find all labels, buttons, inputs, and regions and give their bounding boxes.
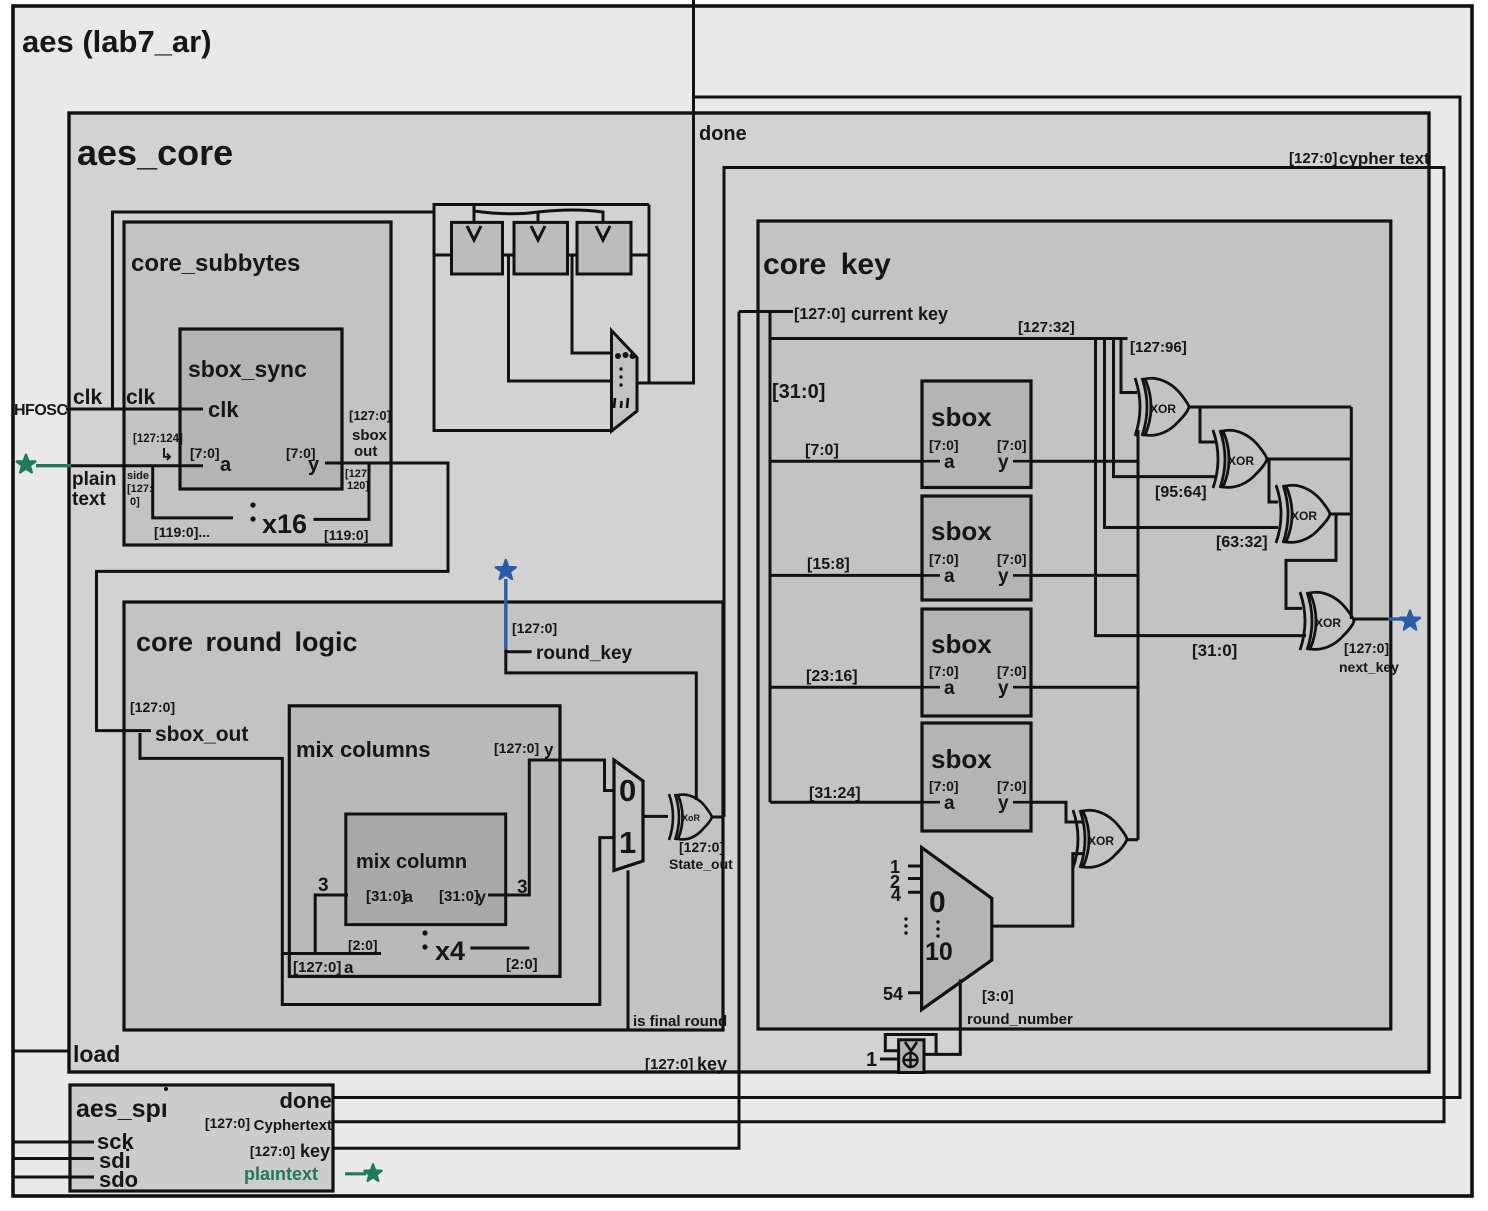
svg-text:core round logic: core round logic: [136, 627, 358, 657]
wire +1 feedback loop: [885, 1035, 936, 1055]
mux marks ooo: [615, 353, 621, 359]
wire a S2 [15:8]: [770, 574, 922, 577]
svg-text:[127:0]: [127:0]: [205, 1115, 250, 1131]
svg-text:text: text: [72, 489, 106, 510]
svg-text:a: a: [944, 678, 955, 699]
svg-text:[127:0]: [127:0]: [645, 1056, 693, 1073]
module box sbox_sync: [180, 329, 342, 489]
wire plaintext into sbox_sync a: [71, 464, 203, 467]
wire a S4 [31:24]: [770, 801, 922, 804]
wire 1 tick: [880, 1058, 899, 1061]
svg-text:[127:: [127:: [345, 468, 371, 480]
wire y S2 to g-bus: [1031, 574, 1138, 577]
svg-text:Cyphertext: Cyphertext: [254, 1117, 332, 1134]
wire y S1 to g-bus: [1031, 460, 1138, 463]
module box mix column: [346, 814, 506, 925]
mux final round select: [614, 760, 643, 870]
module box aes_core: [69, 113, 1429, 1072]
wire K4 out: [1354, 618, 1388, 621]
mux register select: [612, 331, 638, 432]
svg-text:120]: 120]: [347, 480, 369, 492]
wire R2/R3 junction down to mux: [572, 255, 612, 353]
wire :x4 stub: [470, 947, 529, 950]
svg-text:done: done: [699, 123, 747, 145]
wire g-bus vertical: [1137, 430, 1140, 840]
mux rcon input ticks: [908, 866, 922, 993]
svg-text:mix column: mix column: [356, 851, 467, 873]
svg-text:HFOSC: HFOSC: [14, 402, 68, 419]
svg-text:sbox: sbox: [931, 402, 992, 432]
svg-text:[7:0]: [7:0]: [929, 551, 959, 567]
xor gate K1: [1135, 378, 1189, 436]
wire slice drop v4 [127:96]: [1121, 339, 1137, 393]
svg-text:[31:0]: [31:0]: [366, 888, 406, 905]
svg-text:cypher text: cypher text: [1339, 149, 1430, 168]
svg-text:x4: x4: [435, 936, 465, 966]
svg-text:core_subbytes: core_subbytes: [131, 250, 300, 277]
wire mix column y out: [488, 760, 614, 895]
wire sbox_out from sbox_sync y: [97, 463, 449, 731]
module box core_subbytes: [124, 222, 391, 545]
svg-text:sbox_out: sbox_out: [155, 723, 248, 746]
sbox S4: [922, 723, 1031, 831]
svg-text:[127:0]: [127:0]: [250, 1143, 295, 1159]
next_key star (blue): [1388, 611, 1420, 630]
mux rcon: [922, 848, 992, 1010]
wire slice drop v2 [63:32]: [1105, 339, 1279, 528]
svg-text:[7:0]: [7:0]: [805, 442, 839, 459]
pin ticks sboxes: [922, 461, 1031, 802]
svg-text:a: a: [944, 566, 955, 587]
svg-text:[31:0]: [31:0]: [439, 888, 479, 905]
svg-text:aes (lab7_ar): aes (lab7_ar): [22, 24, 212, 59]
svg-text:[15:8]: [15:8]: [807, 556, 850, 573]
xor gate K5: [1073, 810, 1127, 868]
svg-text:[127:0]: [127:0]: [679, 839, 724, 855]
svg-text:[127:32]: [127:32]: [1018, 319, 1075, 336]
svg-text:a: a: [220, 454, 232, 476]
wire K2 out to bus: [1267, 458, 1351, 461]
svg-text:a: a: [944, 452, 955, 473]
svg-text:[7:0]: [7:0]: [997, 551, 1027, 567]
svg-text:[119:0]...: [119:0]...: [154, 524, 210, 540]
arrowhead into R3: [596, 226, 610, 240]
svg-text:[7:0]: [7:0]: [190, 445, 220, 461]
wire sdi: [13, 1157, 94, 1160]
svg-text:a: a: [944, 793, 955, 814]
xor-plus symbol: [904, 1053, 918, 1067]
svg-text:[7:0]: [7:0]: [929, 663, 959, 679]
svg-text:sbox: sbox: [931, 629, 992, 659]
svg-text:out: out: [354, 443, 377, 460]
arrowhead clock mark: [905, 1042, 917, 1051]
svg-text:3: 3: [318, 875, 329, 896]
svg-text:1: 1: [619, 825, 636, 860]
wire sck: [13, 1141, 94, 1144]
wire mux output to done riser: [637, 382, 694, 385]
arrowhead into R2: [531, 226, 545, 240]
svg-text:y: y: [998, 678, 1009, 699]
svg-text:[127:0]: [127:0]: [494, 740, 539, 756]
svg-text:0: 0: [929, 886, 946, 919]
svg-text:XoR: XoR: [682, 813, 701, 823]
svg-text:3: 3: [517, 877, 528, 898]
svg-text:[127:0]: [127:0]: [794, 306, 846, 323]
label :x16: [250, 502, 255, 507]
wire K5 out to g-bus: [1127, 838, 1138, 841]
wire load: [13, 1050, 69, 1053]
wire a S3 [23:16]: [770, 686, 922, 689]
svg-text:done: done: [279, 1088, 332, 1113]
svg-text:a: a: [344, 958, 354, 977]
wire [127:32] horizontal: [770, 337, 1128, 340]
svg-text:y: y: [544, 740, 554, 759]
svg-text:y: y: [998, 793, 1009, 814]
svg-text:y: y: [477, 889, 486, 906]
svg-text:sbox: sbox: [931, 516, 992, 546]
label :x4: [422, 930, 427, 935]
svg-text:clk: clk: [208, 397, 239, 422]
svg-text:[23:16]: [23:16]: [806, 668, 858, 685]
svg-text:XOR: XOR: [1228, 454, 1254, 468]
wire x16 left stub [119:0]: [153, 466, 233, 518]
module box aes_spi: [70, 1085, 333, 1191]
wire key loop: [333, 312, 739, 1149]
wire sbox_out continue: [140, 733, 614, 1005]
register R2: [514, 222, 568, 274]
wire is final round select: [627, 870, 630, 1030]
svg-text:XOR: XOR: [1315, 616, 1341, 630]
svg-text:clk: clk: [126, 386, 156, 409]
arrowhead into R1: [467, 226, 481, 240]
mux marks lil: [614, 398, 628, 408]
svg-text:[31:0]: [31:0]: [1192, 641, 1237, 660]
svg-text:[127:0]: [127:0]: [512, 620, 557, 636]
svg-text:XOR: XOR: [1088, 834, 1114, 848]
wire round_number select: [924, 979, 960, 1054]
svg-text:is final round: is final round: [633, 1013, 727, 1030]
svg-text:[119:0]: [119:0]: [324, 527, 368, 543]
plaintext star out (green): [345, 1164, 382, 1181]
svg-text:plain: plain: [72, 469, 116, 490]
wire reg connectors: [434, 254, 649, 257]
svg-text:current key: current key: [851, 304, 948, 324]
svg-text:y: y: [998, 566, 1009, 587]
svg-text:sbox: sbox: [352, 427, 388, 444]
svg-text:mix columns: mix columns: [296, 737, 430, 762]
wire next_key bus vertical: [1350, 407, 1353, 619]
module box mix columns: [289, 706, 560, 977]
svg-text:[7:0]: [7:0]: [929, 778, 959, 794]
wire slice drop v1 [31:0]: [1096, 339, 1307, 636]
wire x16 right stub: [314, 463, 370, 519]
mux marks dots: [619, 367, 622, 370]
svg-text:XOR: XOR: [1291, 509, 1317, 523]
svg-text:[31:24]: [31:24]: [809, 785, 861, 802]
svg-text:a: a: [404, 889, 413, 906]
wire register-block frame right: [648, 205, 651, 384]
wire branch to mix column a: [282, 952, 381, 955]
svg-text:[127:0]: [127:0]: [1289, 150, 1337, 167]
module box core round logic: [124, 602, 723, 1030]
module box core key: [758, 221, 1391, 1029]
svg-text:[127:124]: [127:124]: [133, 433, 183, 445]
wire register-block frame left/bottom: [434, 205, 649, 431]
xor gate state_out: [669, 794, 712, 840]
sbox S2: [922, 496, 1031, 600]
wire K1 out to bus: [1189, 406, 1351, 409]
svg-text:[7:0]: [7:0]: [997, 437, 1027, 453]
wire K1 out jog to K2: [1200, 407, 1215, 442]
svg-text:State_out: State_out: [669, 856, 733, 872]
svg-text:0: 0: [619, 773, 636, 808]
register R1: [452, 222, 503, 274]
wire slice drop v3 [95:64]: [1114, 339, 1216, 477]
svg-text:[127:0]: [127:0]: [1344, 640, 1389, 656]
svg-text:54: 54: [883, 984, 903, 1004]
wire sdo: [13, 1176, 94, 1179]
svg-text:XOR: XOR: [1150, 402, 1176, 416]
svg-text:[7:0]: [7:0]: [997, 663, 1027, 679]
svg-text:key: key: [300, 1141, 330, 1161]
svg-text:next_key: next_key: [1339, 659, 1399, 675]
svg-text:side: side: [127, 470, 149, 482]
svg-text:y: y: [998, 452, 1009, 473]
xor gate K4: [1300, 592, 1354, 650]
svg-text:load: load: [73, 1041, 120, 1067]
svg-text:sbox: sbox: [931, 744, 992, 774]
wire rcon mux out to K5: [992, 854, 1084, 927]
wire R1/R2 junction down to mux: [509, 255, 612, 381]
svg-text:[2:0]: [2:0]: [506, 956, 538, 973]
plaintext input star (green): [17, 455, 71, 473]
svg-text:[127:96]: [127:96]: [1130, 339, 1187, 356]
wire K3 out jog to K4: [1286, 514, 1336, 608]
register round counter +1: [899, 1040, 924, 1073]
wire K2 out jog to K3: [1269, 459, 1278, 502]
sbox S3: [922, 609, 1031, 716]
svg-text:core key: core key: [763, 248, 891, 281]
svg-text:key: key: [697, 1054, 727, 1074]
svg-text:4: 4: [891, 885, 901, 905]
svg-text:[7:0]: [7:0]: [929, 437, 959, 453]
svg-text:[7:0]: [7:0]: [997, 778, 1027, 794]
wire state_out to cyphertext riser: [712, 816, 724, 819]
svg-text:0]: 0]: [130, 496, 140, 508]
svg-text:1: 1: [866, 1049, 877, 1071]
svg-text:[95:64]: [95:64]: [1155, 484, 1207, 501]
svg-text:↳: ↳: [160, 447, 173, 464]
node clk riser to register block: [113, 212, 435, 409]
wire mux out to xor: [643, 815, 668, 818]
svg-text:y: y: [308, 454, 320, 476]
svg-text:[127:: [127:: [127, 483, 153, 495]
svg-text:plaıntext: plaıntext: [244, 1164, 318, 1184]
wire K3 out to bus: [1330, 513, 1351, 516]
wire register feed line with arrows: [474, 205, 603, 222]
svg-text:[31:0]: [31:0]: [772, 381, 825, 403]
svg-text:[2:0]: [2:0]: [348, 937, 378, 953]
wire done loop: [692, 0, 695, 385]
svg-text:10: 10: [925, 938, 953, 966]
svg-text:[3:0]: [3:0]: [982, 988, 1014, 1005]
sbox S1: [922, 381, 1031, 488]
svg-text:[127:0]: [127:0]: [130, 699, 175, 715]
wire current key in: [739, 310, 793, 313]
wire clk from HFOSC into sbox_sync: [66, 408, 203, 411]
svg-text:round_number: round_number: [967, 1011, 1073, 1028]
wire a S1 [7:0]: [770, 460, 922, 463]
svg-text:sdo: sdo: [99, 1167, 138, 1192]
round_key star (blue): [496, 560, 516, 649]
svg-text:aes_core: aes_core: [77, 132, 233, 173]
svg-text:clk: clk: [73, 386, 103, 409]
wire y S4 to xor5: [1031, 802, 1084, 822]
svg-text:round_key: round_key: [536, 643, 633, 664]
wire cyphertext loop: [333, 168, 1444, 1122]
wire key bus vertical: [769, 312, 772, 803]
xor gate K3: [1276, 485, 1330, 543]
svg-text:[127:0]: [127:0]: [293, 959, 341, 976]
svg-text:sbox_sync: sbox_sync: [188, 356, 307, 382]
svg-text:x16: x16: [262, 509, 307, 539]
svg-text:[127:0]: [127:0]: [349, 408, 391, 423]
wire y S3 to g-bus: [1031, 686, 1138, 689]
wire round_key: [506, 649, 532, 651]
svg-text:[63:32]: [63:32]: [1216, 534, 1268, 551]
xor gate K2: [1213, 430, 1267, 488]
svg-text:aes_spı: aes_spı: [76, 1095, 168, 1123]
register R3: [577, 222, 631, 274]
